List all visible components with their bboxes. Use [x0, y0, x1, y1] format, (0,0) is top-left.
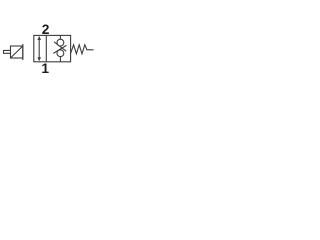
svg-text:1: 1 — [41, 61, 49, 76]
svg-text:2: 2 — [42, 22, 50, 37]
